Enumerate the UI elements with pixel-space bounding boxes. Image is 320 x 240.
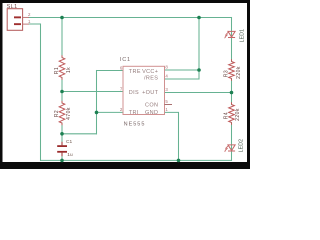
- border frame right: [247, 0, 250, 169]
- svg-text:TRE: TRE: [129, 69, 141, 75]
- LED1 arrowheads: [225, 34, 227, 36]
- wire SL1 pin1 to left ground rail: [29, 24, 41, 160]
- wire R1 bottom to DIS node: [61, 78, 63, 104]
- resistor R4 leads: [231, 102, 233, 104]
- svg-text:470k: 470k: [66, 107, 72, 120]
- node junction top right rail: [197, 16, 201, 20]
- op-amp-style IC U1 NE555 box: [120, 57, 172, 127]
- svg-text:TRI: TRI: [129, 110, 139, 116]
- resistor R1 leads: [62, 55, 232, 156]
- border frame bottom: [0, 162, 250, 169]
- node junction VCC pin8: [197, 68, 201, 72]
- wire R2 bottom to C1 node: [61, 123, 63, 145]
- wire VCC pin 8 horizontal: [165, 69, 200, 71]
- LED2 arrowheads: [225, 148, 227, 150]
- svg-text:220k: 220k: [236, 66, 242, 79]
- node junction top R1: [60, 16, 64, 20]
- connector SL1: [7, 4, 31, 30]
- wire /RES pin 4 horizontal: [165, 78, 200, 80]
- svg-text:1u: 1u: [67, 152, 73, 158]
- svg-text:DIS: DIS: [129, 90, 139, 96]
- node junction R2/C1: [60, 132, 64, 136]
- svg-text:220k: 220k: [235, 108, 241, 121]
- svg-text:IC1: IC1: [120, 57, 131, 63]
- wire TRI pin 2 horizontal: [97, 111, 124, 113]
- pin 5 CON stub: [165, 104, 173, 106]
- node junction TRI: [95, 111, 99, 115]
- wire C1 node to TRI link: [62, 133, 97, 135]
- wire GND pin 1 to ground rail: [165, 112, 179, 160]
- wire TRE pin 6 horizontal: [97, 70, 124, 72]
- svg-text:GND: GND: [145, 110, 158, 116]
- svg-text:R3: R3: [223, 70, 229, 77]
- node junction DIS: [60, 90, 64, 94]
- svg-text:LED1: LED1: [239, 29, 245, 43]
- node junction C1 ground: [60, 159, 64, 163]
- wire LED column mid segment: [231, 79, 233, 105]
- wire C1 bottom to ground rail: [61, 153, 63, 161]
- resistor R1: [54, 58, 72, 78]
- svg-text:C1: C1: [66, 139, 72, 145]
- resistor R3: [223, 62, 241, 79]
- svg-text:R1: R1: [54, 67, 60, 74]
- wire right VCC rail: [198, 18, 200, 80]
- wire top rail to R1 top: [61, 18, 63, 58]
- svg-text:CON: CON: [145, 103, 158, 109]
- border frame left: [0, 0, 3, 169]
- wire OUT pin 3 to LED divider node: [165, 92, 232, 94]
- wire ground bottom rail: [41, 159, 232, 161]
- LED1: [225, 31, 235, 37]
- resistor R2: [54, 103, 72, 123]
- resistor R4: [223, 105, 240, 123]
- svg-text:R4: R4: [223, 112, 229, 119]
- svg-text:SL1: SL1: [7, 4, 18, 10]
- svg-text:+OUT: +OUT: [142, 90, 159, 96]
- resistor R2 leads: [61, 101, 63, 103]
- wire LED column bottom segment: [231, 123, 233, 161]
- border frame top: [0, 0, 250, 3]
- svg-text:/RES: /RES: [144, 76, 158, 82]
- svg-text:VCC+: VCC+: [142, 69, 158, 75]
- capacitor C1 leads: [61, 142, 63, 156]
- capacitor C1: [57, 139, 73, 158]
- svg-text:R2: R2: [54, 110, 60, 117]
- wire VCC top rail: [29, 17, 232, 19]
- wire LED column top segment: [231, 18, 233, 62]
- node junction LED divider: [230, 91, 234, 95]
- svg-text:1k: 1k: [66, 67, 72, 73]
- resistor R3 leads: [231, 59, 233, 61]
- wire TRE-TRI vertical link: [96, 71, 98, 134]
- svg-text:NE555: NE555: [124, 121, 146, 127]
- svg-text:LED2: LED2: [239, 139, 245, 153]
- LED2: [225, 145, 235, 151]
- node junction GND rail: [177, 159, 181, 163]
- wire DIS node to pin 7: [62, 91, 123, 93]
